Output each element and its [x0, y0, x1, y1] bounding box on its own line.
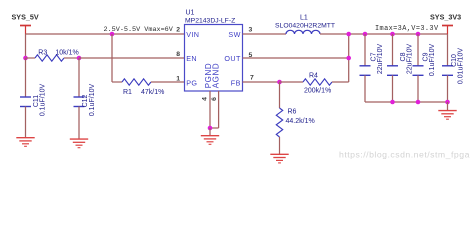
svg-text:https://blog.csdn.net/stm_fpga: https://blog.csdn.net/stm_fpga [339, 150, 470, 160]
node dot rail/C9 [416, 32, 421, 37]
svg-text:0.1uF/10V: 0.1uF/10V [39, 84, 46, 117]
pin name VIN [186, 30, 199, 39]
ground under C12 [70, 139, 88, 148]
wire pin 6 stub [210, 91, 219, 128]
label C12 value [82, 84, 96, 117]
wire C11 bottom lead [25, 107, 27, 138]
label C11 value [33, 84, 47, 117]
svg-text:0.1uF/10V: 0.1uF/10V [89, 84, 96, 117]
inductor L1 [286, 30, 320, 34]
resistor R4 [280, 79, 349, 85]
op-amp U1 MP2143 body [185, 25, 243, 92]
wire VIN rail horizontal [26, 33, 185, 35]
pin name PG [186, 78, 197, 87]
wire C12 top lead [78, 58, 80, 97]
capacitor C8 [387, 66, 398, 76]
node dot bottom rail C9 [416, 100, 421, 105]
wire C8 bottom lead [392, 75, 394, 102]
svg-text:U1: U1 [186, 9, 195, 16]
net label SYS_5V [12, 13, 39, 22]
wire R1 vertical drop [111, 34, 113, 82]
label C9 value [422, 44, 435, 77]
ground under U1 [201, 136, 219, 145]
svg-text:4: 4 [202, 97, 209, 101]
pin name SW [228, 30, 240, 39]
svg-text:44.2k/1%: 44.2k/1% [286, 118, 315, 125]
label C7 value [370, 43, 383, 74]
ground under C11 [16, 138, 34, 147]
wire C9 top lead [417, 34, 419, 66]
svg-text:7: 7 [250, 75, 254, 82]
wire C12 bottom lead [78, 107, 80, 140]
wire C10 top lead [447, 34, 449, 66]
pin number 4 [202, 97, 209, 101]
svg-text:SLO0420H2R2MTT: SLO0420H2R2MTT [275, 23, 335, 30]
svg-text:3: 3 [249, 26, 253, 33]
svg-text:22uF/10V: 22uF/10V [406, 43, 413, 74]
power symbol SYS_5V [20, 26, 31, 35]
pin name AGND [212, 63, 221, 89]
pin name PGND [204, 63, 213, 89]
wire capacitor bottom rail [365, 101, 448, 103]
wire FB [243, 81, 280, 83]
svg-text:2: 2 [176, 26, 180, 33]
wire C7 top lead [364, 34, 366, 66]
node dot VIN rail / R1 [110, 32, 115, 37]
pin number 6 [211, 97, 218, 101]
svg-text:R3: R3 [38, 49, 47, 56]
svg-text:8: 8 [176, 51, 180, 58]
svg-text:47k/1%: 47k/1% [141, 89, 164, 96]
resistor R1 [112, 79, 185, 85]
wire C9 bottom lead [417, 75, 419, 102]
label R4 value [304, 73, 331, 95]
svg-text:L1: L1 [300, 15, 308, 22]
svg-text:R4: R4 [309, 73, 318, 80]
wire C11 top lead [25, 58, 27, 97]
wire C8 top lead [392, 34, 394, 66]
svg-text:R6: R6 [288, 109, 297, 116]
svg-text:FB: FB [231, 78, 241, 87]
wire SW to L1 [243, 33, 287, 35]
node dot R3/EN/C12 [77, 56, 82, 61]
svg-text:Imax=3A,V=3.3V: Imax=3A,V=3.3V [375, 25, 439, 33]
wire R4 to output rail vertical [348, 34, 350, 82]
ground output rail [438, 111, 456, 120]
svg-text:0.01uF/10V: 0.01uF/10V [457, 48, 464, 85]
pin number 1 [176, 75, 180, 82]
node dot rail/R4 [346, 32, 351, 37]
net label SYS_3V3 [430, 13, 461, 22]
pin number 7 [250, 75, 254, 82]
node dot bottom rail ground [445, 100, 450, 105]
label R6 value [286, 109, 315, 125]
pin number 5 [249, 52, 253, 59]
wire R6 drop [279, 82, 281, 108]
pin name OUT [224, 54, 241, 63]
pin number 8 [176, 51, 180, 58]
label R3 value [38, 49, 78, 56]
svg-text:OUT: OUT [224, 54, 241, 63]
node dot PGND/AGND join [208, 126, 213, 131]
svg-text:200k/1%: 200k/1% [304, 88, 331, 95]
label R1 value [123, 89, 164, 96]
svg-text:10k/1%: 10k/1% [55, 49, 78, 56]
wire C7 bottom lead [364, 75, 366, 102]
svg-text:SW: SW [228, 30, 240, 39]
pin number 2 [176, 26, 180, 33]
wire EN [79, 57, 185, 59]
node dot bottom rail C8 [390, 100, 395, 105]
svg-text:AGND: AGND [212, 63, 221, 89]
power symbol SYS_3V3 [442, 26, 453, 35]
resistor R6 [276, 108, 282, 154]
node dot OUT/R4 vertical [346, 56, 351, 61]
wire OUT [243, 57, 349, 59]
pin number 3 [249, 26, 253, 33]
capacitor C12 [74, 97, 85, 107]
svg-text:0.1uF/10V: 0.1uF/10V [429, 44, 436, 77]
capacitor C10 [442, 66, 453, 76]
wire pin 4 stub [209, 91, 211, 128]
wire to output ground [447, 102, 449, 110]
watermark [339, 150, 470, 160]
ground under R6 [270, 154, 288, 163]
pin name EN [186, 54, 197, 63]
wire L1 to output rail [320, 33, 448, 35]
node dot rail/C7 [363, 32, 368, 37]
svg-text:R1: R1 [123, 89, 132, 96]
pin name FB [231, 78, 241, 87]
capacitor C7 [360, 66, 371, 76]
label C8 value [400, 43, 413, 74]
capacitor C9 [413, 66, 424, 76]
node dot rail/C8 [390, 32, 395, 37]
node dot FB/R4/R6 [277, 80, 282, 85]
label U1 refdes [185, 9, 235, 24]
label L1 refdes value [275, 15, 335, 30]
annotation Imax=3A,V=3.3V [375, 25, 439, 33]
svg-text:1: 1 [176, 75, 180, 82]
svg-text:EN: EN [186, 54, 197, 63]
svg-text:22uF/10V: 22uF/10V [377, 43, 384, 74]
svg-text:C12: C12 [82, 94, 89, 107]
svg-text:VIN: VIN [186, 30, 199, 39]
wire to chip ground [209, 128, 211, 136]
annotation 2.5V-5.5V Vmax=6V [104, 26, 174, 34]
svg-text:SYS_5V: SYS_5V [12, 13, 39, 22]
wire left rail vertical [25, 34, 27, 58]
node dot left rail / R3 / C11 [23, 56, 28, 61]
svg-text:6: 6 [211, 97, 218, 101]
wire C10 bottom lead [447, 75, 449, 102]
label C10 value [451, 48, 464, 85]
svg-text:MP2143DJ-LF-Z: MP2143DJ-LF-Z [185, 18, 235, 25]
capacitor C11 [20, 97, 31, 107]
svg-text:PG: PG [186, 78, 197, 87]
resistor R3 [26, 55, 80, 61]
svg-text:SYS_3V3: SYS_3V3 [430, 13, 461, 22]
